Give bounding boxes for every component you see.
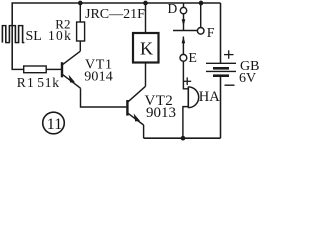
wire VT1 emitter drop and run to VT2 base bbox=[81, 88, 127, 107]
wire R1 to VT1 base bbox=[46, 68, 61, 70]
node HA bottom junction bbox=[181, 136, 186, 141]
relay coil K bbox=[133, 33, 159, 63]
contact F bbox=[197, 28, 204, 35]
svg-text:51k: 51k bbox=[37, 75, 60, 90]
contact E bbox=[180, 36, 187, 61]
wire top rail bbox=[12, 3, 220, 70]
svg-text:E: E bbox=[188, 51, 197, 66]
wire VT2 collector riser to K bbox=[145, 63, 147, 87]
wire left bottom to R1 bbox=[12, 68, 24, 70]
wire HA bottom drop bbox=[183, 107, 188, 139]
resistor R1 bbox=[24, 66, 47, 73]
figure number 11 bbox=[43, 112, 65, 134]
wire E to HA top bbox=[183, 61, 188, 89]
wire R2 top lead bbox=[79, 3, 81, 22]
svg-text:6V: 6V bbox=[239, 71, 256, 86]
contact bar bbox=[173, 30, 197, 32]
wire bottom rail bbox=[144, 137, 221, 139]
gas sensor SL bbox=[2, 26, 25, 43]
buzzer HA bbox=[188, 87, 198, 108]
svg-text:D: D bbox=[168, 1, 178, 16]
node R2 top junction bbox=[78, 1, 83, 6]
transistor VT1 bbox=[62, 51, 81, 88]
svg-text:9013: 9013 bbox=[146, 105, 176, 121]
svg-text:HA: HA bbox=[199, 89, 220, 105]
wire F drop bbox=[200, 3, 202, 27]
wire R2 bottom lead bbox=[79, 41, 81, 51]
transistor VT2 bbox=[127, 86, 145, 125]
svg-text:11: 11 bbox=[47, 116, 62, 133]
label + (HA) bbox=[183, 77, 191, 85]
svg-text:R1: R1 bbox=[17, 75, 35, 90]
svg-text:F: F bbox=[207, 26, 215, 41]
node F top junction bbox=[199, 1, 204, 6]
svg-text:SL: SL bbox=[26, 29, 42, 44]
wire right rail bottom bbox=[220, 76, 222, 139]
wire VT2 emitter drop bbox=[143, 125, 145, 138]
svg-text:K: K bbox=[140, 39, 153, 59]
node K top junction bbox=[143, 1, 148, 6]
label + (battery) bbox=[224, 50, 234, 59]
svg-text:9014: 9014 bbox=[84, 70, 113, 85]
resistor R2 bbox=[77, 22, 85, 41]
battery GB bbox=[206, 63, 236, 75]
contact D bbox=[180, 3, 186, 30]
svg-text:10k: 10k bbox=[48, 28, 72, 43]
wire K top lead bbox=[145, 3, 147, 33]
svg-text:JRC—21F: JRC—21F bbox=[85, 7, 145, 22]
label - (battery) bbox=[225, 84, 235, 86]
wire right rail top bbox=[220, 3, 222, 63]
